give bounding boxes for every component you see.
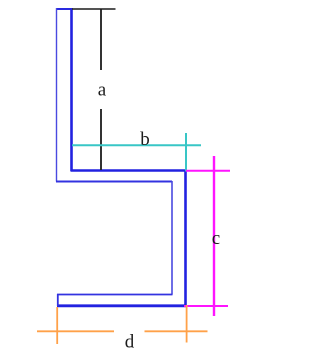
dimension d line left segment (37, 330, 114, 332)
profile bottom-left end cap (57, 294, 59, 306)
dimension a line lower segment (100, 109, 102, 170)
profile bottom flange bottom line (57, 304, 187, 307)
profile inner right vertical (184, 170, 187, 306)
profile inner middle horizontal (71, 169, 187, 172)
dimension c line (213, 156, 215, 316)
profile outer right vertical (171, 181, 173, 295)
dimension a top tick (72, 8, 116, 10)
dimension c bottom tick (184, 305, 228, 307)
dimension d line right segment (145, 330, 208, 332)
profile outer left vertical (56, 8, 58, 182)
profile bottom flange top line (57, 294, 173, 296)
svg-text:c: c (212, 228, 220, 249)
svg-text:d: d (125, 331, 135, 352)
profile top end cap (56, 8, 72, 10)
svg-text:a: a (98, 80, 107, 101)
dimension c top tick (186, 170, 230, 172)
dimension d left tick (56, 307, 58, 344)
dimension d right tick (186, 305, 188, 343)
dimension b line (72, 144, 201, 146)
profile outer middle horizontal (56, 181, 172, 183)
svg-text:b: b (140, 129, 150, 150)
profile inner left vertical (70, 8, 73, 171)
dimension b right tick (185, 133, 187, 172)
dimension a line upper segment (100, 9, 102, 70)
